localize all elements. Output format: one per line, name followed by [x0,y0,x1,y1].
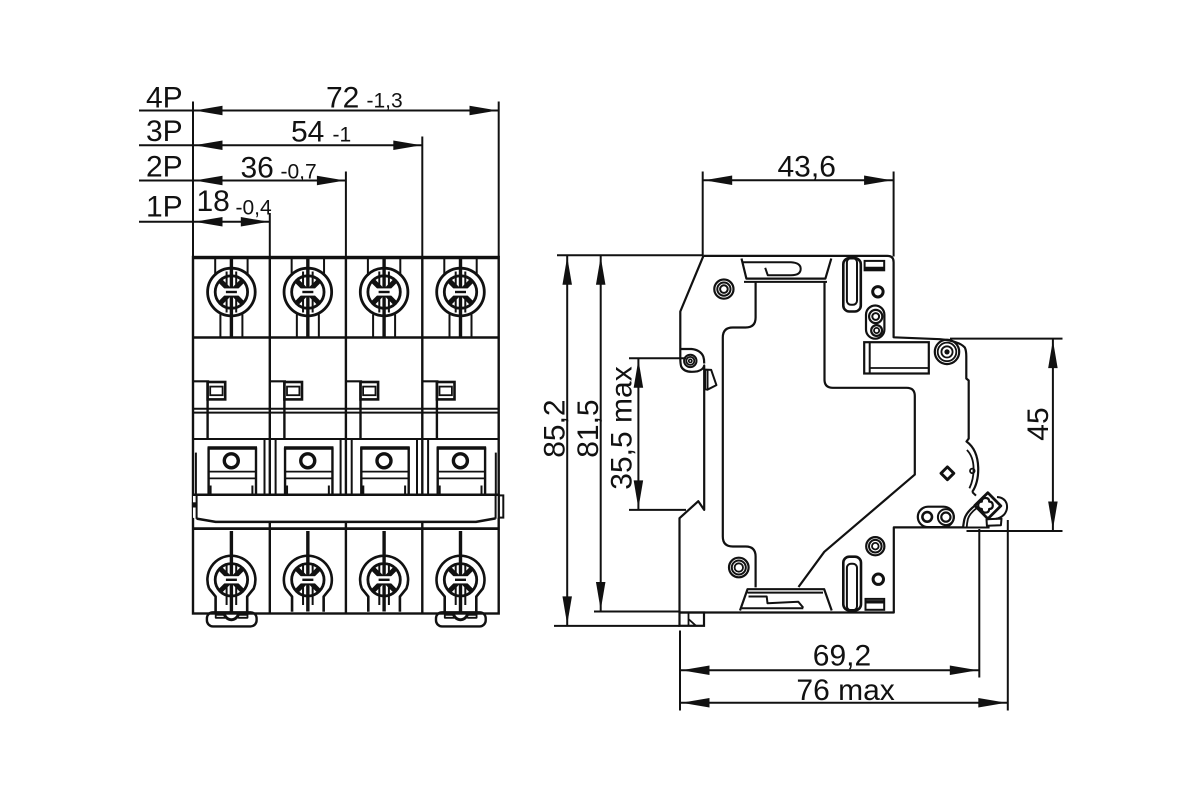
top screw slot bar [302,291,313,293]
top screw vertical line [459,259,462,338]
fixed claw screw r3 [941,346,952,357]
toggle recess tick L [362,486,364,495]
toggle strip left wall [195,453,197,495]
top screw outer circle [284,268,332,316]
top screw inner circle [444,276,476,308]
toggle spacer wall R [351,439,353,495]
top terminal lower lines [297,315,319,338]
fixed claw screw r2 [938,343,957,362]
rail tooth wedge [705,370,716,390]
dim 81,5 arrow top [596,257,606,285]
bottom DIN tab inner lines [445,612,477,618]
svg-text:-0,4: -0,4 [236,197,273,220]
toggle spacer wall L [264,439,266,495]
svg-text:1P: 1P [146,191,183,224]
toggle bar body [193,495,499,522]
clip flag stub [436,381,438,439]
dimension 54 arrow right [393,141,421,151]
top screw slot [453,288,469,295]
toggle recess line A [209,471,256,473]
top left screw mid [717,283,730,296]
toggle spacer wall L [416,439,418,495]
top left screw inner [720,285,728,293]
dim 69,2 arrow left [682,666,710,676]
dimension 18 arrow left [195,217,223,227]
crescent claw connector [972,492,976,496]
dimension 18 arrow right [241,217,269,227]
DIN slot bottom outer [843,557,861,611]
toggle bar left side [196,495,198,519]
top right small rect bar [865,267,885,270]
front section line lower [193,527,499,530]
fixed claw screw center [944,349,949,354]
toggle hole [224,454,238,468]
clip claw quatrefoil [978,498,993,513]
bottom screw vertical band [456,563,466,605]
bottom screw cross X [297,569,319,591]
top left screw [714,280,733,299]
clip arm inner line [967,508,977,527]
bottom screw inner circle [292,564,324,596]
toggle recess tick L [439,486,441,495]
dim 76 ext right [1007,520,1009,711]
front view body outline [193,257,499,614]
toggle bar right protrusion [499,495,504,517]
top right small rect [865,261,885,270]
toggle hole [301,454,315,468]
toggle hole [453,454,467,468]
dim 35,5 top ext [629,357,686,359]
dim 76 arrow right [978,698,1006,708]
svg-text:-1: -1 [333,124,352,147]
toggle recess box [361,448,408,494]
dim 85,2 line [566,255,568,626]
movable clip hole [922,512,932,522]
lower screw A [866,537,884,555]
front toggle strip top line [193,438,499,440]
bottom screw vertical band [303,563,313,605]
top screw slot bar [226,291,237,293]
dim 35,5 arrow bottom [634,480,644,508]
toggle recess tick R [328,486,330,495]
top screw inner circle [215,276,247,308]
toggle recess line B [209,477,256,479]
top right pill screw lower [871,325,882,336]
toggle recess tick L [286,486,288,495]
top right pill screw lower in [874,328,879,333]
toggle recess line B [285,477,332,479]
toggle recess tick R [481,486,483,495]
svg-text:18: 18 [197,185,230,218]
bottom screw vertical band [379,563,389,605]
dim 43,6 ext right [893,172,895,257]
top screw vertical line [306,259,309,338]
toggle recess line B [438,477,485,479]
bottom keyhole outline [207,556,255,612]
bottom screw slot bar [455,579,466,581]
svg-text:72: 72 [326,82,359,115]
dim 43,6 arrow left [704,176,732,186]
dim 45 top ext [950,338,1063,340]
dim 81,5 line [600,255,602,611]
clip claw square [975,493,1001,519]
dimension 72 arrow left [195,106,223,116]
clip flag top line [346,380,362,382]
clip flag stub [283,381,285,439]
top terminal lower lines [220,315,242,338]
toggle spacer wall L [340,439,342,495]
bottom screw slot [300,576,316,583]
top cover shelf line [744,281,827,283]
top screw vertical band [379,272,389,313]
toggle pivot screw mid [686,357,694,365]
dim 85,2 arrow bottom [562,596,572,624]
svg-text:3P: 3P [146,115,183,148]
clip flag box inner [287,387,299,396]
dim 35,5 arrow top [634,360,644,388]
dim 35,5 line [637,358,639,510]
fixed claw block [864,342,929,373]
movable clip screw in [941,513,950,522]
top right pill screw upper in [872,313,879,320]
front view top edge thick [193,256,499,259]
clip flag box [361,382,379,399]
toggle recess tick L [210,486,212,495]
clip flag top line [270,380,286,382]
toggle recess top thick [208,446,257,449]
dim 81,5 bottom ext [594,611,680,613]
lower screw B [729,558,749,578]
side outline lower right [680,256,975,613]
dim 45 bottom ext [967,530,1063,532]
clip flag box inner [363,387,375,396]
top screw outer circle [360,268,408,316]
toggle bar right side [495,495,497,519]
front section line upper [193,336,499,338]
svg-text:81,5: 81,5 [572,399,605,457]
dimension 54 arrow left [195,141,223,151]
toggle recess line A [361,471,408,473]
inner wall left staircase [723,283,756,588]
cable clamp step [749,597,804,608]
dim 69,2 ext left [679,631,681,711]
dim 45 arrow bottom [1048,502,1058,530]
bottom screw cross X [220,569,242,591]
bottom screw slot [376,576,392,583]
side foot tab [680,613,705,626]
bottom screw slot bar [302,579,313,581]
svg-text:4P: 4P [146,82,183,115]
top screw slot bar [379,291,390,293]
svg-text:36: 36 [241,152,274,185]
bottom keyhole outline [284,556,332,612]
bottom DIN tab [436,612,486,626]
bottom screw vertical line [306,531,309,612]
dim 69,2 line [680,669,979,671]
top screw vertical line [382,259,385,338]
clip flag top line [193,380,209,382]
top screw inner circle [292,276,324,308]
movable clip pill [918,507,954,527]
DIN slot top outer [843,258,861,311]
toggle recess line A [285,471,332,473]
toggle spacer wall R [275,439,277,495]
square hole diamond [941,467,954,480]
dim 85,2 arrow top [562,257,572,285]
side view main outline [703,256,978,492]
dimension 72 rule+line [139,110,499,112]
top screw vertical band [227,272,237,313]
lower screw A mid [869,540,882,553]
toggle strip right wall [495,453,497,495]
rail spring crescent inner [967,450,974,488]
top right hole [873,287,883,297]
front double rail line B [193,412,499,414]
svg-text:76 max: 76 max [796,674,894,707]
top screw slot [224,288,240,295]
bottom keyhole outline [437,556,485,612]
bottom screw vertical line [459,531,462,612]
lower screw B inner [735,563,743,571]
clip claw bottom tab [987,519,1002,526]
top screw cross X [373,281,395,303]
rail spring pin [970,469,975,474]
svg-text:-1,3: -1,3 [367,90,403,113]
top screw slot [300,288,316,295]
dim 69,2 ext right [978,529,980,678]
clip flag box inner [440,387,452,396]
dimension 18 rule+line [139,221,270,223]
top terminal lower lines [373,315,395,338]
dim 35,5 bottom ext [629,509,686,511]
dim 43,6 arrow right [864,176,892,186]
toggle bar top line [192,493,500,496]
top right pill [866,306,884,339]
toggle recess line A [438,471,485,473]
fixed claw screw r1 [935,340,959,364]
dim 76 line [680,702,1008,704]
dim 85,2+81,5 top ext [557,254,703,256]
top terminal funnel [368,259,400,276]
top screw slot bar [455,291,466,293]
top cover trapezoid [742,259,832,279]
bottom line under claw [963,527,990,529]
toggle pivot bump top [680,349,704,364]
toggle pivot screw [684,355,696,367]
top screw outer circle [437,268,485,316]
top screw cross X [220,281,242,303]
rail tooth inner line [707,370,709,389]
top cover inner step [743,262,801,275]
cable clamp bottom line [742,607,804,609]
dimension 36 rule+line [139,180,346,182]
bottom screw inner circle [444,564,476,596]
dim 85,2 bottom ext [554,625,680,627]
top screw vertical band [303,272,313,313]
svg-text:2P: 2P [146,151,183,184]
top screw slot [376,288,392,295]
top terminal funnel [292,259,324,276]
dim 76 arrow left [682,698,710,708]
bottom right hole [873,574,883,584]
bottom screw slot bar [379,579,390,581]
bottom screw slot bar [226,579,237,581]
bottom DIN tab [207,612,257,626]
dim 81,5 arrow bottom [596,582,606,610]
toggle recess box [438,448,485,494]
bottom screw slot [224,576,240,583]
bottom screw vertical line [382,531,385,612]
toggle recess top thick [360,446,409,449]
bottom DIN tab inner lines [216,612,248,618]
dim 43,6 ext left [702,172,704,256]
top terminal funnel [215,259,247,276]
dim 43,6 line [703,179,894,181]
clip flag box [208,382,226,399]
DIN slot bottom inner [847,564,857,611]
extension line 18 [269,213,271,257]
side foot inner [689,613,697,626]
movable clip screw [938,509,954,525]
cable clamp trapezoid [740,589,832,610]
clip flag box inner [210,387,222,396]
top screw vertical band [456,272,466,313]
toggle spacer wall R [427,439,429,495]
toggle recess line B [361,477,408,479]
dimension 72 arrow right [470,106,498,116]
extension line 36 [345,172,347,258]
cable clamp top double [748,592,824,594]
bottom screw cross X [449,569,471,591]
top screw inner circle [368,276,400,308]
bottom screw inner circle [368,564,400,596]
svg-text:35,5 max: 35,5 max [606,366,639,489]
bottom DIN tab arc [224,613,238,620]
lower screw A inner [872,543,879,550]
dim 45 arrow top [1048,340,1058,368]
extension line 72 [498,102,500,258]
pole divider D2 [345,257,347,614]
clip flag stub [359,381,361,439]
fixed claw block left double [869,342,871,373]
top screw vertical line [230,259,233,338]
svg-text:69,2: 69,2 [813,640,871,673]
svg-text:43,6: 43,6 [778,151,836,184]
dim 69,2 arrow right [950,666,978,676]
dimension 36 arrow left [195,176,223,186]
dimension 54 rule+line [139,144,422,146]
clip flag top line [422,380,438,382]
bottom keyhole outline [360,556,408,612]
front double rail line A [193,408,499,410]
lower screw B mid [732,561,746,575]
toggle recess box [285,448,332,494]
bottom right small rect [866,599,885,610]
toggle pivot screw center [689,359,692,362]
toggle recess top thick [284,446,333,449]
toggle bar bottom edge [197,518,496,522]
svg-text:85,2: 85,2 [538,399,571,457]
top terminal lower lines [450,315,472,338]
svg-text:54: 54 [291,116,324,149]
clip flag box [284,382,302,399]
bottom screw slot [453,576,469,583]
top screw outer circle [208,268,256,316]
fixed claw block inner bottom [870,367,929,369]
bottom screw vertical line [230,531,233,612]
pole divider D3 [421,257,423,614]
DIN slot top inner [847,258,857,305]
toggle recess tick R [404,486,406,495]
bottom screw inner circle [215,564,247,596]
top terminal funnel [444,259,476,276]
bottom screw vertical band [227,563,237,605]
toggle recess box [209,448,256,494]
bottom DIN tab arc [453,613,467,620]
extension line 54 [421,137,423,258]
inner wall right staircase [799,283,915,588]
extension line left edge [192,102,194,258]
bottom screw cross X [373,569,395,591]
pole divider D1 [269,257,271,614]
clip claw flange [996,497,1007,519]
toggle hole [377,454,391,468]
dimension 36 arrow right [317,176,345,186]
bottom right small rect bar [866,600,885,603]
toggle recess tick R [251,486,253,495]
top screw cross X [449,281,471,303]
toggle bar left edge black tab [192,502,196,507]
svg-text:-0,7: -0,7 [281,161,317,184]
clip flag box [437,382,455,399]
clip flag stub [206,381,208,439]
top screw cross X [297,281,319,303]
dim 45 line [1052,339,1054,531]
top right pill screw upper [869,310,882,323]
svg-text:45: 45 [1022,407,1055,440]
toggle recess top thick [437,446,486,449]
